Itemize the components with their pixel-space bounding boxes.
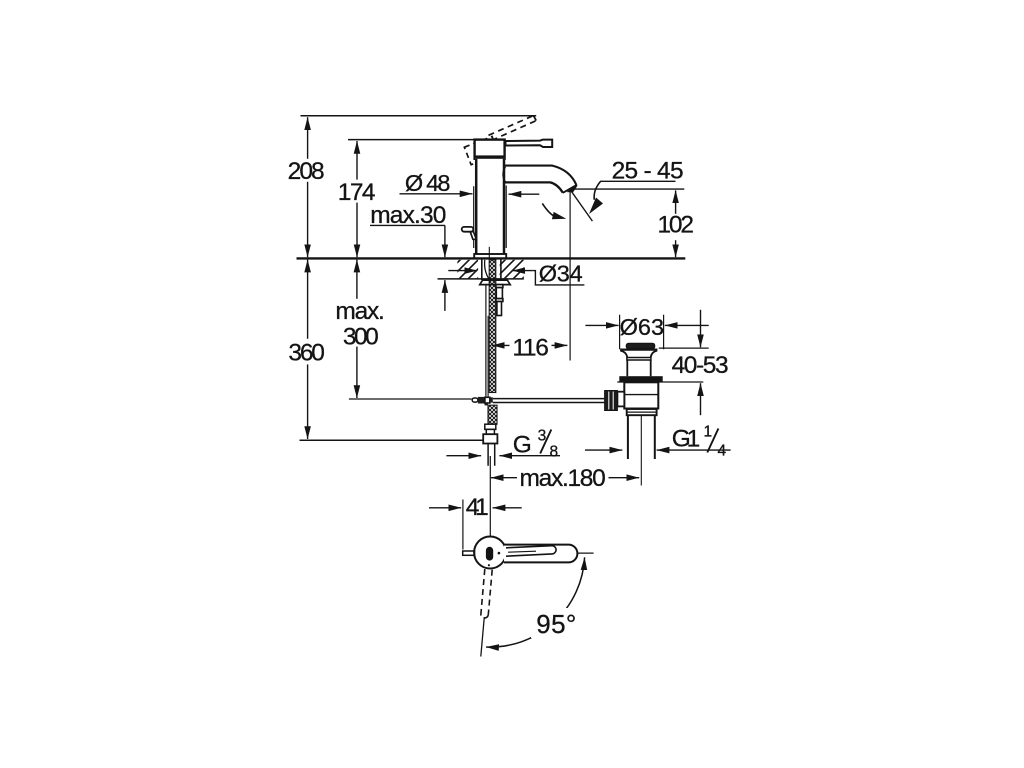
fraction slashes bbox=[540, 429, 718, 454]
rod stub left bbox=[463, 551, 475, 555]
countertop deck line bbox=[297, 257, 686, 259]
dim G1 1/4 bbox=[585, 449, 622, 451]
hose curve inside shank bbox=[485, 260, 490, 280]
dim 360 bbox=[307, 260, 309, 339]
svg-text:Ø63: Ø63 bbox=[620, 314, 665, 340]
faucet body bbox=[475, 159, 505, 254]
svg-text:4: 4 bbox=[718, 443, 727, 460]
svg-text:102: 102 bbox=[658, 212, 695, 239]
right hatch patch bbox=[500, 260, 524, 279]
spout end face bbox=[563, 185, 577, 193]
lever joint pieces bbox=[472, 398, 478, 402]
spout junction arc bbox=[503, 167, 505, 182]
svg-text:G1: G1 bbox=[672, 425, 701, 452]
max300 extension line to rod bbox=[349, 398, 472, 400]
aerator dark wedge bbox=[569, 185, 577, 191]
neck ring bbox=[627, 358, 651, 361]
dim max.180 bbox=[491, 477, 517, 479]
collar bbox=[627, 409, 657, 415]
body center line at base bbox=[488, 247, 490, 259]
dim 116 bbox=[492, 344, 510, 346]
svg-text:max.180: max.180 bbox=[520, 465, 606, 492]
dim 102 bbox=[675, 190, 677, 213]
arrowheads of curved arrows bbox=[589, 198, 603, 215]
dashed lever (alternate position) bbox=[489, 116, 537, 141]
G3/8 nut bbox=[483, 434, 497, 443]
svg-text:Ø34: Ø34 bbox=[539, 261, 583, 287]
escutcheon shank walls through counter bbox=[482, 260, 501, 281]
mounting nut bbox=[480, 280, 510, 285]
spout tip projection line bbox=[569, 190, 571, 361]
svg-text:360: 360 bbox=[288, 340, 325, 367]
dashed rect (handle cap alternate position) bbox=[464, 137, 498, 165]
body circle bbox=[474, 537, 506, 569]
curved arrow right (spout range) bbox=[594, 182, 600, 200]
neck sides bbox=[627, 360, 650, 376]
countertop bottom line bbox=[438, 278, 524, 280]
svg-text:G: G bbox=[513, 432, 532, 459]
dim 208 bbox=[307, 117, 309, 159]
svg-text:300: 300 bbox=[343, 323, 379, 350]
rod second line bbox=[487, 316, 489, 397]
tailpipe walls bbox=[628, 415, 655, 459]
dim D63 bbox=[585, 324, 618, 326]
dim max300 bbox=[356, 260, 358, 299]
svg-text:40-53: 40-53 bbox=[672, 352, 729, 379]
95deg arc bbox=[486, 557, 584, 647]
41 left extension bbox=[462, 500, 464, 550]
spout bottom edge bbox=[504, 182, 563, 192]
flange top plate bbox=[620, 349, 657, 351]
svg-text:max.: max. bbox=[335, 298, 384, 325]
left port bbox=[617, 392, 624, 407]
svg-text:95°: 95° bbox=[536, 609, 576, 639]
flexible hose upper band bbox=[489, 260, 496, 393]
white backing for 95 deg text bbox=[531, 608, 581, 638]
dim D34 bbox=[448, 270, 477, 272]
dim 40-53 bbox=[700, 310, 702, 348]
svg-text:116: 116 bbox=[512, 335, 549, 362]
knurled nut bbox=[605, 391, 618, 411]
D48 extension lines bbox=[474, 186, 507, 249]
curved arrow left (under spout) bbox=[542, 203, 554, 216]
svg-text:41: 41 bbox=[466, 494, 489, 521]
pipe center line bbox=[640, 415, 642, 485]
diagonal leader from spout tip bbox=[570, 189, 592, 221]
174 reference line bbox=[348, 139, 475, 141]
pull-rod knob on left of body bbox=[470, 232, 476, 240]
plug knob (dark disc) bbox=[626, 343, 654, 348]
flange neck curves bbox=[620, 351, 657, 358]
left hatch patch bbox=[457, 260, 478, 279]
max180 left extension bbox=[489, 456, 491, 537]
hose end fittings bbox=[485, 424, 496, 429]
lever cross-section pill bbox=[486, 547, 493, 561]
40-53 reference lines bbox=[617, 348, 708, 382]
svg-text:208: 208 bbox=[288, 158, 325, 185]
handle capsule bbox=[504, 545, 577, 563]
base plate bbox=[474, 254, 506, 258]
hose tube end bbox=[488, 444, 495, 466]
rubber seal dark band bbox=[619, 376, 662, 382]
dim 41 bbox=[429, 507, 461, 509]
pop-up rod line bbox=[485, 285, 487, 397]
dim 25-45 lines bbox=[571, 181, 685, 189]
drain body bbox=[624, 382, 658, 408]
360 bottom reference line bbox=[300, 439, 488, 441]
reference line right of handle bbox=[578, 552, 594, 554]
dashed handle alternate position bbox=[481, 569, 492, 615]
dim 174 bbox=[356, 141, 358, 180]
svg-text:1: 1 bbox=[704, 424, 713, 441]
inner shaft bbox=[506, 546, 552, 557]
body mid line bbox=[624, 394, 658, 396]
dim D48 bbox=[400, 193, 473, 195]
svg-text:25 - 45: 25 - 45 bbox=[612, 158, 684, 185]
svg-text:Ø 48: Ø 48 bbox=[405, 170, 451, 196]
svg-text:max.30: max.30 bbox=[370, 202, 446, 229]
horizontal lever rod to drain bbox=[493, 399, 605, 403]
solid lever bbox=[506, 140, 553, 147]
handle cap bbox=[475, 140, 505, 159]
dim G3/8 bbox=[446, 455, 481, 457]
spout top edge bbox=[504, 166, 577, 185]
rod guide stack bbox=[496, 285, 503, 288]
flexible hose lower band bbox=[488, 405, 497, 424]
D34 stepped leader bbox=[533, 271, 584, 285]
angle extension line bbox=[481, 617, 485, 657]
cap bottom dark bar bbox=[474, 155, 506, 159]
D63 extension lines bbox=[620, 315, 664, 350]
dim max30 bbox=[370, 224, 445, 226]
svg-text:8: 8 bbox=[550, 444, 559, 461]
top reference line (208) bbox=[301, 115, 537, 117]
